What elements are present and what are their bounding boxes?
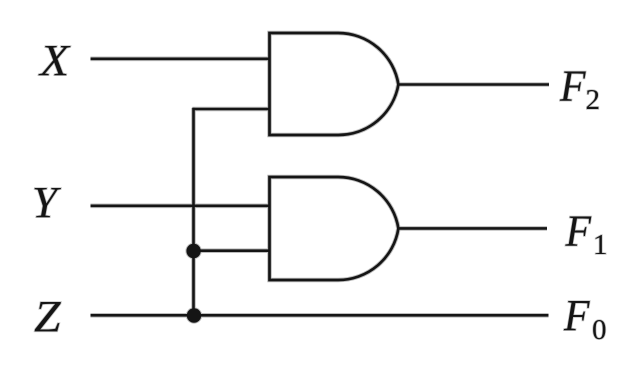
svg-text:F: F: [559, 61, 587, 110]
svg-text:F: F: [565, 206, 593, 255]
svg-text:Z: Z: [34, 291, 62, 341]
svg-text:2: 2: [586, 84, 601, 116]
svg-text:1: 1: [593, 229, 608, 261]
svg-text:X: X: [38, 35, 71, 85]
svg-text:F: F: [563, 291, 591, 340]
svg-text:0: 0: [592, 314, 607, 346]
svg-text:Y: Y: [32, 177, 61, 227]
